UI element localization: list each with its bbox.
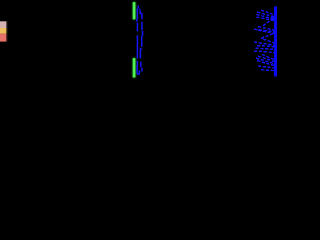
edge merge wedge at bar: [271, 15, 275, 21]
edge diagonal up C: [261, 33, 274, 38]
edge bundle B: [258, 27, 274, 31]
blue strand right: [140, 9, 143, 72]
green node bar top segment: [132, 2, 135, 20]
edge bundle A into bar top: [254, 10, 274, 70]
edge bundle D: [262, 54, 274, 59]
edge diagonal up A: [263, 19, 272, 26]
left node segment pink: [0, 21, 6, 28]
left node segment yellow: [0, 28, 6, 34]
left node segment red: [0, 34, 6, 42]
edge bundle C: [263, 39, 274, 43]
edge F: [261, 69, 274, 72]
green node bar bottom segment: [132, 58, 135, 78]
edge E: [258, 66, 274, 68]
left node soft edge: [6, 21, 7, 41]
blue strand left: [137, 5, 140, 74]
right node bar: [274, 7, 277, 77]
